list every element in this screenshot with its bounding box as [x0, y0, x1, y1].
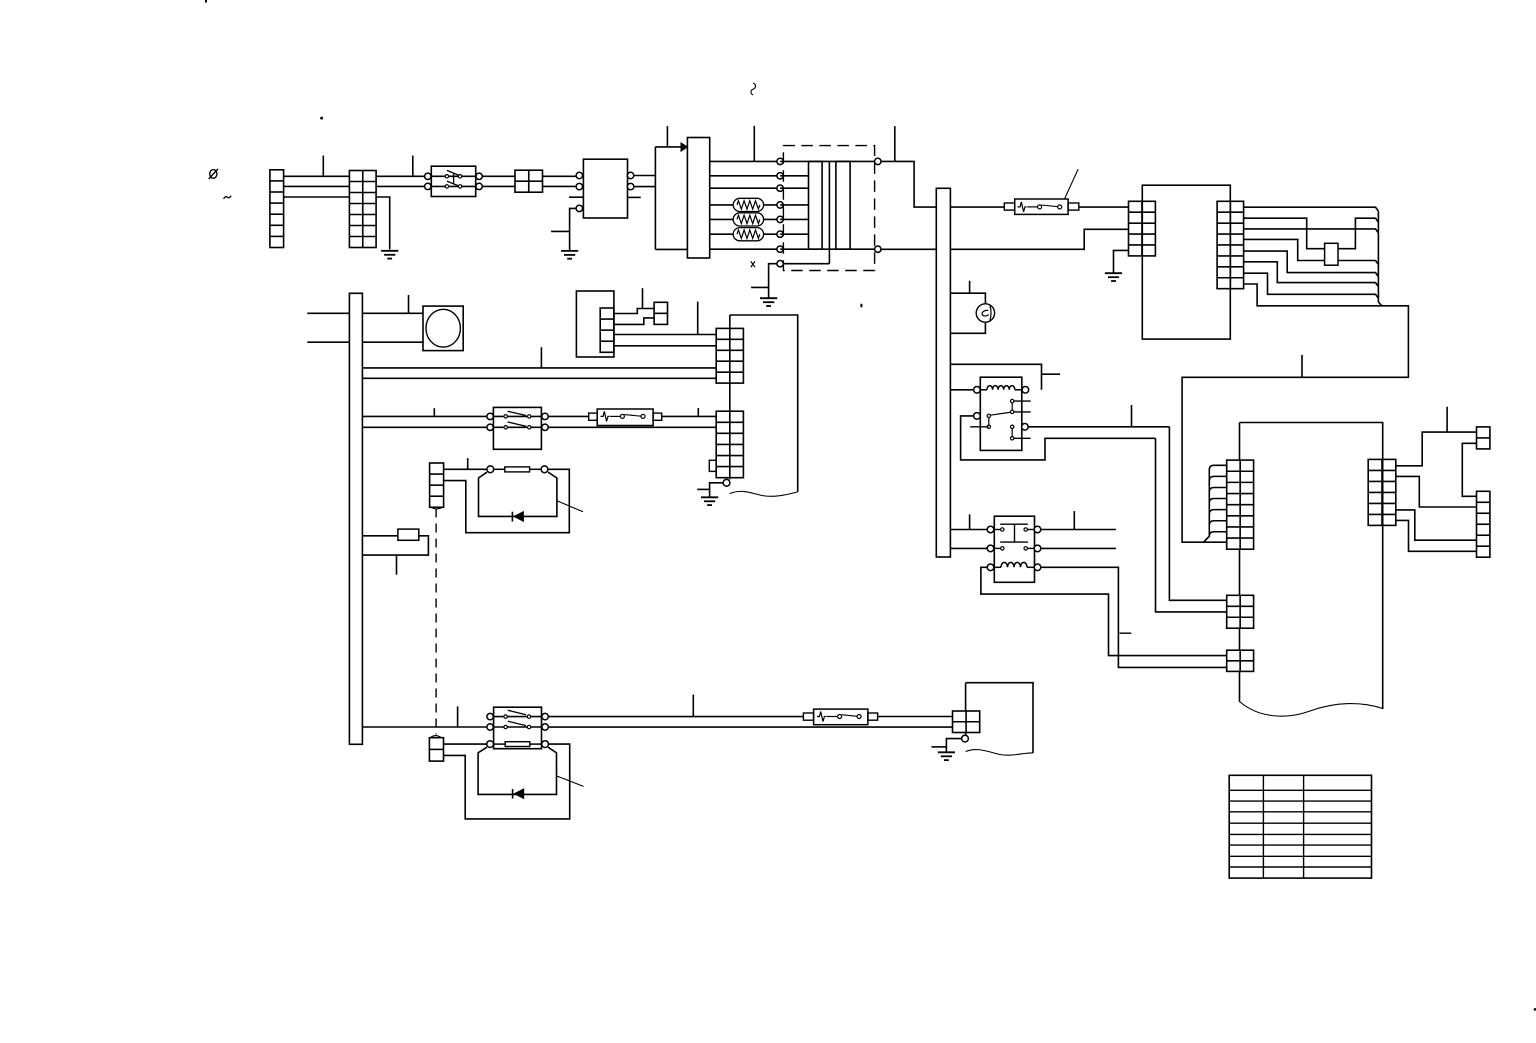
bus2 collector vertical: [1378, 211, 1381, 306]
block Q torn bottom edge: [1240, 702, 1383, 717]
wire TB1-TB2 line2: [284, 185, 350, 187]
harness fan branch y509.6: [1209, 510, 1226, 514]
relay K1 diode box: [479, 472, 557, 516]
wire TB3-U1 line1: [543, 175, 577, 177]
relay RL1 coil circles: [974, 387, 981, 394]
wire bus2 long2: [362, 377, 716, 379]
block A1 tall rectangle: [687, 138, 709, 259]
relay K1 outer loop: [444, 469, 570, 532]
wire A1-T1 line5 right: [764, 218, 781, 220]
fuse F2 right tab: [868, 713, 878, 720]
wire U2 r1 jog: [614, 309, 654, 314]
motor M1 circle: [426, 309, 460, 347]
relay RL1 top loop: [951, 364, 1042, 390]
relay K1 coil wires: [494, 468, 505, 470]
block Q3 pin circle: [962, 735, 969, 742]
fuse F1 contacts: [620, 414, 624, 418]
stub tick CN5: [1446, 407, 1448, 432]
wire T1 tap6: [780, 233, 808, 235]
wire RL2 coil left out: [981, 567, 1227, 655]
block Q2 pin circle: [723, 479, 730, 486]
label x: [751, 261, 755, 267]
wire left stub2: [307, 341, 349, 343]
wire S1-TB3 line2: [482, 185, 515, 187]
relay RL2 pole circles: [987, 526, 994, 533]
wire U2 r2 jog: [614, 318, 654, 325]
wire RL2 row1 out: [1041, 529, 1116, 531]
relay K2 leader line: [557, 776, 584, 787]
fuse F1 right tab: [653, 413, 662, 420]
wire T1 tap2: [780, 175, 808, 177]
stub tick RL2 row1: [969, 514, 971, 529]
transformer T1 secondary circles: [875, 158, 881, 164]
wire A1-T1 line6 right: [764, 233, 781, 235]
stub tick secondary wire: [894, 126, 896, 161]
fuse F2 blade: [842, 715, 858, 717]
wire bus2-motor2: [362, 341, 423, 343]
relay RL1 left stub tick: [970, 426, 988, 428]
ECU right terminal block: [1217, 201, 1244, 288]
stub tick long1: [540, 347, 542, 368]
stub tick on arrow wire: [666, 126, 668, 147]
block Q2 terminal tab: [709, 460, 716, 471]
block U1 pin circles left: [576, 172, 582, 178]
wire bus-RL2 row1: [951, 529, 987, 531]
transformer T1 primary top wire: [780, 160, 878, 162]
breaker CB1 contacts: [1038, 205, 1042, 209]
stub tick U2 r3: [697, 302, 699, 335]
breaker CB1 right tab: [1068, 203, 1079, 210]
wire A1-T1 line5 left: [710, 218, 734, 220]
wire A1-T1 line4 right: [764, 204, 781, 206]
relay K2 outer loop: [444, 744, 570, 819]
relay RL1 left contacts link: [988, 416, 990, 427]
wire to Q mid r2: [1156, 438, 1227, 612]
fuse F1 body: [597, 409, 653, 426]
wire S1-TB3 line1: [482, 175, 515, 177]
wire ECU r1 to bus2: [1244, 207, 1379, 211]
ECU block: [1142, 185, 1230, 339]
relay RL1 lower contact stub: [1012, 437, 1030, 439]
dashed link CN3-CN4: [435, 509, 437, 735]
terminal block TB3: [515, 170, 543, 192]
block Q2 torn bottom: [730, 491, 798, 496]
breaker CB1 body: [1015, 199, 1068, 214]
wire TB3-U1 line2: [543, 185, 577, 187]
stub tick transformer wire1: [753, 126, 755, 161]
wire RL1 NO out: [1028, 426, 1169, 428]
stub tick bottom1: [457, 706, 459, 727]
wire F1-TBL r1: [662, 415, 717, 417]
relay RL1 bracket: [961, 416, 1156, 460]
block U2: [576, 291, 614, 357]
wire A1-T1 line3: [710, 187, 780, 189]
lamp LP1 filament: [982, 305, 991, 320]
relay RL2 coil: [994, 566, 1001, 568]
stray mark top edge: [205, 0, 207, 3]
block Q outline: [1240, 423, 1383, 710]
harness fan branch y520.7: [1209, 521, 1226, 526]
stray dot mid: [860, 304, 862, 307]
relay K1 leader line: [557, 501, 583, 512]
resistor R1 body: [733, 198, 763, 211]
bus bar B2: [349, 293, 362, 744]
ground GND1 from TB2: [376, 197, 390, 249]
fuse F2 left tab: [803, 713, 813, 720]
transformer T1 primary connection circles: [777, 158, 783, 164]
block Q low terminal 2x2: [1227, 650, 1254, 671]
relay K1 coil circles: [487, 466, 494, 473]
switch S1 blade1: [447, 170, 459, 175]
lamp LP1 tick: [969, 281, 971, 294]
relay RL1 pole circle left: [974, 413, 981, 420]
relay RL1 box: [980, 377, 1022, 450]
ground GND6 bars: [938, 751, 955, 753]
transformer T1 secondary winding: [836, 161, 850, 249]
block Q3 outline: [966, 683, 1033, 753]
stub tick RL2 row1 out: [1073, 511, 1075, 529]
relay RL1 stub right: [1042, 373, 1061, 375]
harness fan branch y476.4: [1209, 476, 1226, 481]
harness fan branch y531.7: [1209, 532, 1226, 537]
wire Rbox out up: [1338, 218, 1378, 249]
resistor R3 body: [733, 228, 763, 241]
relay K2 coil wires: [494, 743, 506, 745]
wire A1-T1 line1: [710, 160, 780, 162]
resistor R3 zigzag: [737, 230, 760, 238]
ground GND2 wire: [570, 208, 577, 251]
block U1: [583, 159, 627, 218]
lamp LP1 bracket top: [951, 293, 986, 304]
stub tick U2 r1: [642, 288, 644, 308]
switch S2 pole circles: [487, 413, 493, 419]
breaker CB1 left tab: [1004, 203, 1014, 210]
breaker CB1 element: [1018, 202, 1027, 212]
ground GND2 bars: [561, 250, 578, 252]
relay RL1 blade: [990, 412, 1011, 415]
terminal strip TB1: [270, 170, 284, 248]
arrow into block A1: [681, 143, 687, 151]
ground GND3 bars: [760, 297, 777, 299]
ground GND5 bars: [701, 496, 718, 498]
harness fan riser: [1204, 465, 1227, 542]
relay RL1 pole circle right: [1022, 424, 1029, 431]
wire A1-T1 line7: [710, 248, 780, 250]
transformer T1 terminal x circle: [777, 261, 783, 267]
component Rbox: [1325, 243, 1338, 265]
ground GND5 wire: [710, 483, 724, 498]
lamp LP1 bracket bottom: [951, 322, 986, 333]
relay RL2 contacts: [1001, 528, 1004, 531]
transformer T1 primary bottom wire: [780, 248, 878, 250]
wire S2-F1: [548, 415, 589, 417]
block Q left terminal 2x8: [1227, 460, 1254, 549]
connector CN3: [430, 463, 444, 507]
diode D2 triangle: [514, 789, 523, 798]
block Q2 outline: [730, 315, 798, 492]
stray dot: [320, 117, 323, 120]
transformer T1 shield: [783, 161, 829, 263]
wire bus2-S2 r1: [362, 415, 493, 417]
wire TB2-S1 line1: [376, 175, 431, 177]
transformer T1 dashed boundary: [783, 146, 874, 271]
wire A1-T1 line2: [710, 175, 780, 177]
wire bus2-comp: [362, 535, 398, 537]
relay RL2 bridge contact: [1000, 524, 1028, 542]
switch S3 inner wires: [494, 716, 542, 718]
diode D2 bar: [512, 789, 514, 799]
wire F2-CN7: [878, 716, 953, 718]
wire T1 secondary top to bus: [881, 161, 936, 207]
resistor R2 zigzag: [737, 215, 760, 223]
component X1 box: [398, 529, 419, 540]
switch S3 pole circles: [487, 713, 493, 719]
wire ECU r8 harness path: [1182, 284, 1408, 542]
switch S1 blade2: [447, 181, 459, 186]
breaker CB1 blade: [1042, 205, 1058, 207]
wire Q r2 to CN6 r2: [1396, 476, 1477, 507]
connector CN4: [429, 738, 443, 761]
ECU left terminal block: [1129, 201, 1156, 256]
connector CN2: [654, 302, 667, 324]
wire TB1-TB2 line3: [284, 196, 350, 198]
block Q right terminal 2x6: [1368, 459, 1396, 525]
block Q mid terminal 2x3: [1227, 595, 1254, 628]
block Q2 lower terminal: [716, 411, 743, 477]
relay K2 coil body: [505, 742, 530, 747]
wire S3 r2 out: [548, 726, 952, 728]
motor M1 box: [423, 306, 463, 351]
stub tick on RL1 wire: [1131, 405, 1133, 427]
harness fan branch y498.5: [1209, 499, 1226, 504]
relay RL2 row1 inner wires: [987, 529, 1002, 531]
block Q3 torn bottom: [966, 750, 1033, 756]
wire ECU r5: [1244, 251, 1379, 277]
relay K2 diode box: [478, 747, 556, 794]
wire left stub1: [307, 312, 349, 314]
transformer T1 primary winding: [809, 161, 823, 249]
wire T1 tap4: [780, 204, 808, 206]
wire A1-T1 line6 left: [710, 233, 734, 235]
stray dot bottom right: [1534, 1008, 1536, 1010]
wire ECU r4 to Rbox: [1244, 239, 1325, 260]
wire U2 r4: [614, 345, 716, 347]
block Q2 upper terminal: [716, 328, 743, 383]
lamp LP1 bulb: [976, 304, 994, 322]
diode D1 bar: [511, 512, 513, 522]
switch S3 blade2: [508, 721, 526, 725]
block U2 terminal column: [600, 308, 614, 352]
wire bus-RL2 row2: [951, 547, 987, 549]
wire A1-T1 line4 left: [710, 204, 734, 206]
wire ECU r3 to bus2: [1244, 229, 1379, 233]
relay RL1 left contacts: [987, 414, 990, 417]
switch S1 contacts: [445, 175, 448, 178]
wire U2 r3: [614, 334, 716, 336]
component X1 tick down: [396, 555, 398, 575]
diode D1 triangle: [514, 512, 523, 522]
wire S3 r1 out: [548, 716, 803, 718]
fuse F1 left tab: [589, 413, 598, 420]
wire Q r1 to CN5: [1396, 432, 1477, 466]
wire bus-RL1 coil: [951, 389, 974, 391]
relay RL1 right upper contact stubs: [1012, 400, 1030, 402]
bus bar B1: [936, 188, 950, 557]
relay RL2 row2 inner wires: [987, 547, 1002, 549]
relay RL2 box: [994, 516, 1034, 582]
block U1 left stub: [569, 196, 583, 198]
fuse F2 contacts: [838, 715, 842, 719]
fuse F2 wire-in: [827, 716, 838, 718]
switch S2 box: [493, 407, 541, 449]
fuse F2 element: [817, 712, 826, 722]
resistor R2 body: [733, 213, 763, 226]
wire T1 tap3: [780, 187, 808, 189]
stub tick on line1 b: [412, 156, 414, 177]
wire ECU r6: [1244, 262, 1379, 287]
fuse F1 element: [601, 411, 610, 421]
switch S3 contacts: [504, 715, 507, 718]
stub tick bottom2: [692, 695, 694, 717]
switch S1 link: [453, 173, 455, 184]
relay K2 coil circles: [487, 741, 494, 748]
connector CN7: [953, 711, 980, 733]
wire bus2 bottom long: [362, 726, 487, 728]
stub tick on harness: [1301, 355, 1303, 377]
wire TB2-S1 line2: [376, 185, 431, 187]
wire CB1-ECU: [1079, 206, 1129, 208]
ground GND6 wire: [946, 739, 961, 753]
wire bus2 long1: [362, 367, 716, 369]
connector CN6: [1477, 491, 1490, 557]
wire bus2-motor1: [362, 312, 423, 314]
block U1 right stub: [628, 196, 641, 198]
connector CN5: [1477, 427, 1490, 449]
resistor R1 zigzag: [737, 201, 760, 209]
relay RL1 coil: [980, 389, 987, 391]
ground GND1 bars: [381, 250, 398, 252]
stub tick motor wire: [408, 295, 410, 313]
ground GND4 wire: [1114, 250, 1129, 273]
breaker CB1 leader line: [1065, 169, 1079, 199]
wire CN5 r2 to CN6 r1: [1462, 443, 1476, 496]
switch S2 contacts: [504, 415, 507, 418]
switch S3 blade1: [508, 710, 526, 714]
wire Rbox out right: [1338, 261, 1378, 265]
wire Q r6 to CN6 r6: [1396, 520, 1477, 551]
wire T1 secondary bottom to bus: [881, 248, 936, 250]
wire T1 tap5: [780, 218, 808, 220]
relay K1 coil body: [505, 467, 530, 472]
fuse F2 body: [814, 709, 868, 725]
wire ECU r2 to Rbox: [1244, 218, 1325, 249]
ground GND2 left tick: [551, 230, 570, 232]
relay RL1 lower contacts: [1011, 425, 1014, 428]
label phase O-slash: [209, 169, 218, 179]
wire bus2-S2 r2: [362, 426, 493, 428]
relay RL1 right upper contacts link: [1011, 401, 1013, 412]
switch S2 blade2: [508, 422, 526, 426]
wire bus-CB1: [950, 206, 1004, 208]
ground GND3 left tick: [751, 286, 769, 288]
wire S2-TBL r2: [548, 426, 716, 428]
wire CN4-K2: [444, 743, 487, 745]
ground GND3 wire: [769, 264, 777, 299]
wire RL2 coil right out: [1041, 567, 1227, 667]
stub tick K1: [467, 458, 469, 469]
ground GND6 left tick: [931, 746, 946, 748]
squiggle above x1 wire: [751, 83, 756, 95]
wire CN3-K1 coil: [444, 468, 487, 470]
ground GND5 left tick: [697, 488, 709, 490]
relay RL1 right upper contacts: [1011, 399, 1014, 402]
switch S2 blade1: [508, 411, 526, 415]
stub tick after F1: [697, 408, 699, 416]
fuse F1 blade: [624, 415, 641, 417]
wire ECU r7: [1244, 273, 1379, 298]
stub tick horizontal: [1120, 632, 1132, 634]
label AC tilde: [224, 196, 232, 199]
block U1 pin circles right: [627, 172, 633, 178]
wire to Q mid r1: [1169, 427, 1226, 601]
wire bus to ECU row3: [950, 229, 1128, 249]
parts table: [1229, 775, 1371, 878]
switch S2 inner wires: [493, 415, 541, 417]
wire Q r5 to CN6 r5: [1396, 510, 1477, 540]
wire U1 to junction vert: [634, 147, 688, 250]
wire RL2 row2 out: [1041, 547, 1116, 549]
fuse F1 wire-in: [610, 415, 620, 417]
harness fan branch y487.5: [1209, 488, 1226, 493]
switch S1 wires inside: [431, 175, 475, 177]
breaker CB1 wire-in: [1027, 206, 1037, 208]
stub tick S2 wire: [433, 408, 435, 416]
switch S3 box: [494, 707, 542, 749]
component X1 loop: [362, 536, 428, 555]
switch S1 pole circles: [425, 173, 431, 179]
terminal block TB2: [349, 171, 376, 248]
ground GND4 bars: [1105, 272, 1122, 274]
stub tick on line1 a: [322, 156, 324, 177]
switch S1 box: [431, 166, 475, 196]
connector CN4 torn top: [429, 736, 443, 739]
wire TB1-TB2 line1: [284, 175, 350, 177]
relay RL1 lower contacts link: [1011, 427, 1013, 439]
